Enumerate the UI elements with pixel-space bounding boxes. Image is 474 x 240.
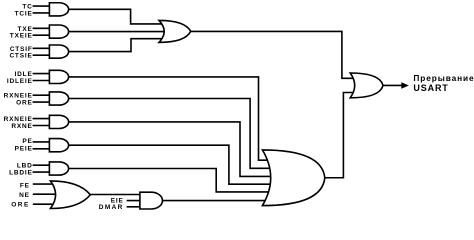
svg-text:TXEIE: TXEIE — [10, 33, 33, 40]
wire TXE stub (gate 2 input A) — [33, 27, 52, 29]
arrowhead on USART interrupt output — [401, 82, 409, 89]
wire PEIE stub (gate 7 input B) — [33, 148, 52, 150]
svg-text:IDLEIE: IDLEIE — [7, 78, 33, 85]
wire IDLEIE stub (gate 4 input B) — [33, 80, 52, 82]
AND gate U1 (TC & TCIE) — [49, 3, 68, 16]
AND gate U5 (RXNEIE & ORE) — [49, 92, 68, 105]
svg-text:FE: FE — [20, 182, 30, 189]
wire U8 output to U12 input 5 — [69, 169, 272, 192]
wire RXNEIE stub (gate 5 input A) — [33, 94, 52, 96]
wire U13 output to arrow — [383, 84, 401, 86]
svg-text:ORE: ORE — [16, 100, 33, 107]
wire U6 output to U12 input 3 — [69, 122, 272, 176]
wire U2 output to U11 input 2 — [69, 31, 166, 33]
svg-text:ORE: ORE — [11, 202, 30, 209]
wire IDLE stub (gate 4 input A) — [33, 73, 52, 75]
AND gate U6 (RXNEIE & RXNE) — [49, 115, 68, 128]
wire RXNE stub (gate 6 input B) — [33, 125, 52, 127]
svg-text:CTSIE: CTSIE — [9, 53, 32, 60]
wire U5 output to U12 input 2 — [69, 99, 272, 169]
wire U7 output to U12 input 4 — [69, 145, 272, 184]
wire FE stub (U9 input 1) — [33, 183, 58, 185]
wire TC stub (gate 1 input A) — [33, 5, 52, 7]
OR gate U12 (receive-group OR) — [262, 150, 324, 206]
svg-text:NE: NE — [19, 192, 30, 199]
svg-text:PEIE: PEIE — [15, 146, 33, 153]
wire U12 output to U13 input 2 — [325, 93, 357, 178]
svg-text:DMAR: DMAR — [99, 204, 124, 211]
AND gate U8 (LBD & LBDIE) — [49, 162, 68, 175]
wire PE stub (gate 7 input A) — [33, 141, 52, 143]
OR gate U13 (final interrupt OR) — [350, 73, 383, 98]
svg-text:Прерывание: Прерывание — [413, 73, 474, 83]
AND gate U7 (PE & PEIE) — [49, 139, 68, 152]
wire ORE stub (U9 input 3) — [33, 203, 58, 205]
wire TXEIE stub (gate 2 input B) — [33, 34, 52, 36]
wire U4 output to U12 input 1 — [69, 77, 272, 160]
svg-text:LBDIE: LBDIE — [9, 170, 33, 177]
wire TCIE stub (gate 1 input B) — [33, 12, 52, 14]
wire CTSIF stub (gate 3 input A) — [33, 47, 52, 49]
wire U3 output to U11 input 3 — [69, 39, 166, 52]
wire CTSIE stub (gate 3 input B) — [33, 54, 52, 56]
wire EIE stub (U10 input 2) — [127, 200, 146, 202]
wire ORE stub (gate 5 input B) — [33, 101, 52, 103]
wire U10 output to U12 input 6 — [163, 200, 273, 202]
wire NE stub (U9 input 2) — [33, 193, 60, 195]
AND gate U2 (TXE & TXEIE) — [49, 25, 68, 38]
wire LBD stub (gate 8 input A) — [33, 164, 52, 166]
wire RXNEIE stub (gate 6 input A) — [33, 118, 52, 120]
svg-text:PE: PE — [22, 138, 32, 145]
svg-text:TCIE: TCIE — [15, 10, 33, 17]
wire U1 output to U11 input 1 — [69, 9, 166, 24]
AND gate U3 (CTSIF & CTSIE) — [49, 45, 68, 58]
svg-text:RXNE: RXNE — [11, 123, 32, 130]
wire DMAR stub (U10 input 3) — [127, 206, 146, 208]
AND gate U10 (error AND EIE AND DMAR) — [140, 192, 163, 209]
wire LBDIE stub (gate 8 input B) — [33, 171, 52, 173]
wire U11 output to U13 input 1 — [191, 31, 357, 78]
OR gate U11 (transmit-group OR) — [159, 20, 191, 42]
OR gate U9 (FE | NE | ORE) — [50, 181, 90, 209]
wire U9 output to U10 input 1 — [90, 194, 146, 196]
AND gate U4 (IDLE & IDLEIE) — [49, 70, 68, 83]
svg-text:USART: USART — [413, 83, 448, 93]
